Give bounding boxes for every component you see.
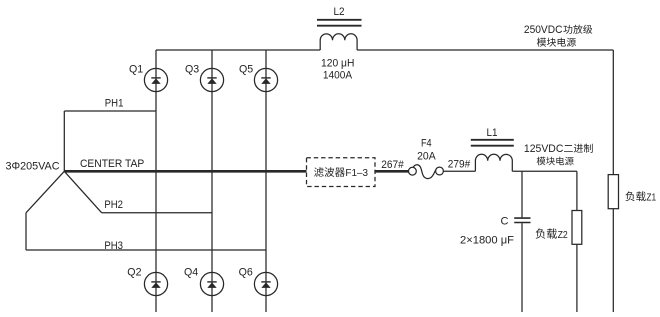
label Q5 [239,63,253,75]
svg-text:Q5: Q5 [239,63,253,75]
svg-text:CENTER TAP: CENTER TAP [80,158,144,170]
svg-text:Q1: Q1 [129,63,143,75]
label 250VDC output (line 2) [537,38,576,47]
load Z1 resistor body [608,175,618,209]
inductor L1 core bar 2 [471,145,514,147]
wire fuse to L1 [443,170,475,172]
capacitor C plate 2 [514,222,530,224]
svg-text:125VDC: 125VDC [524,143,564,155]
label PH2 [104,199,123,211]
label Q4 [184,266,198,278]
svg-text:20A: 20A [417,150,436,162]
wire DC+ bus from L2 to load Z1 branch [357,49,613,51]
svg-text:250VDC: 250VDC [524,24,563,36]
inductor L1 coil [475,154,512,171]
label F4 [421,138,432,150]
value label 1400A [323,70,353,82]
svg-text:Z1: Z1 [646,191,656,203]
value label 2x1800 uF [460,234,514,246]
label node 279# [448,159,471,171]
svg-text:L2: L2 [334,6,345,18]
wire load Z1 bottom lead [612,209,614,312]
label PH3 [104,240,123,252]
svg-text:3Φ205VAC: 3Φ205VAC [6,161,60,173]
wire PH3 horizontal [26,249,266,251]
value label 120 uH [321,58,354,70]
label 250VDC output (line 1) [524,24,592,36]
label L2 [334,6,345,18]
thyristor Q6 [254,272,277,295]
svg-text:Z2: Z2 [558,229,568,241]
label node 267# [381,159,404,171]
inductor L1 core bar 1 [471,139,514,141]
label C [501,216,509,228]
label CENTER TAP [80,158,144,170]
label Q2 [127,266,141,278]
wire load Z2 bottom lead [576,244,578,312]
svg-text:1400A: 1400A [323,70,353,82]
label L1 [487,127,498,139]
wire diagonal to PH3 [26,171,64,213]
thyristor Q2 [144,272,167,295]
thyristor Q1 [144,68,167,91]
thyristor Q4 [200,272,223,295]
wire 250VDC drop to load Z1 [612,50,614,175]
label Q6 [239,266,253,278]
fuse F4 element [413,165,438,179]
wire CENTER TAP heavy bus [64,170,306,173]
inductor L2 core bar 2 [317,25,362,27]
label filter F1-3 [314,167,368,179]
svg-text:279#: 279# [448,159,471,171]
fuse F4 left terminal [409,167,417,175]
svg-text:PH1: PH1 [105,97,124,109]
wire PH1 horizontal [64,110,156,112]
svg-text:C: C [501,216,509,228]
svg-text:F4: F4 [421,138,432,150]
svg-text:120 μH: 120 μH [321,58,354,70]
label load Z1 [625,191,656,203]
wire phase-2 rectifier column [211,50,213,312]
wire heavy segment filter box to fuse [375,170,409,173]
wire capacitor bottom lead [521,223,523,312]
wire L1 to load Z2 branch [512,170,577,172]
svg-text:Q2: Q2 [127,266,141,278]
wire diagonal to PH2 [64,171,101,213]
filter box F1-3 (dashed) [307,158,376,187]
thyristor Q5 [254,68,277,91]
label source 3-phase 205VAC [6,161,60,173]
fuse F4 right terminal [436,167,444,175]
svg-text:PH2: PH2 [104,199,123,211]
svg-text:267#: 267# [381,159,404,171]
thyristor Q3 [200,68,223,91]
svg-text:Q3: Q3 [185,63,199,75]
load Z2 resistor body [572,211,582,245]
wire PH2 horizontal [102,212,212,214]
svg-text:Q6: Q6 [239,266,253,278]
label 125VDC output (line 1) [524,143,593,155]
svg-text:2×1800 μF: 2×1800 μF [460,234,514,246]
wire phase-3 rectifier column [265,50,267,312]
label 20A [417,150,436,162]
wire DC+ bus from thyristor bank to L2 [156,49,320,51]
label Q3 [185,63,199,75]
wire phase-1 rectifier column [155,50,157,312]
label Q1 [129,63,143,75]
inductor L2 coil [320,34,357,50]
wire PH1 drop to center-tap node [63,111,65,171]
wire PH3 vertical [25,213,27,250]
label load Z2 [536,228,568,240]
wire load Z2 top lead [576,171,578,210]
svg-text:L1: L1 [487,127,498,139]
inductor L2 core bar 1 [317,19,362,21]
svg-text:PH3: PH3 [104,240,123,252]
svg-text:Q4: Q4 [184,266,198,278]
capacitor C plate 1 [514,217,530,219]
wire capacitor top lead [521,171,523,217]
label PH1 [105,97,124,109]
label 125VDC output (line 2) [537,157,574,166]
svg-text:F1–3: F1–3 [345,167,368,179]
